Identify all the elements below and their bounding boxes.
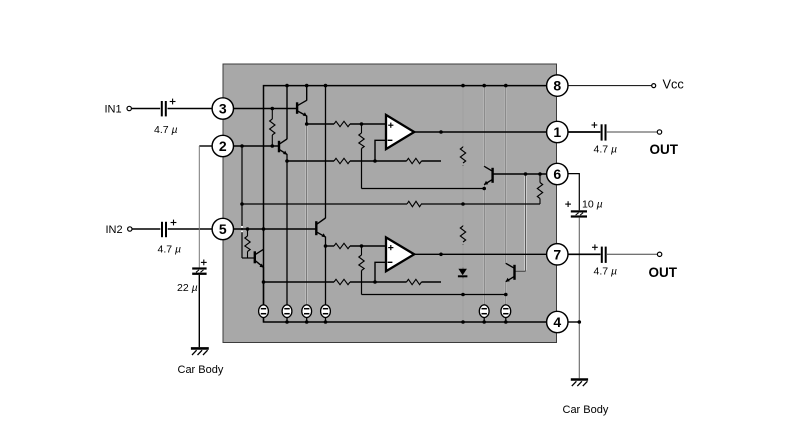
pin 7: [547, 244, 568, 265]
terminal OUT lower: [657, 252, 661, 256]
wire C6 down to pin4 node and ground: [578, 218, 580, 379]
svg-text:IN2: IN2: [106, 224, 123, 236]
svg-text:7: 7: [553, 246, 561, 262]
wire T1 emitter rail x306 thin core: [306, 124, 308, 305]
wire node2 vertical x242: [241, 146, 243, 258]
resistor R5v bias upper: [460, 147, 465, 163]
svg-text:OUT: OUT: [650, 142, 679, 157]
wire T2 collector up: [286, 86, 288, 140]
polarity ticks C6: [576, 213, 579, 215]
op-amp U2a: [386, 115, 414, 149]
resistor R2v at x361: [361, 124, 363, 133]
ground G2 (car body): [571, 378, 588, 381]
pin 2: [212, 135, 233, 156]
svg-text:1: 1: [553, 124, 561, 140]
svg-text:8: 8: [553, 78, 561, 94]
resistor R6h on y204: [407, 201, 421, 206]
pin 3: [212, 98, 233, 119]
svg-text:Car Body: Car Body: [178, 364, 224, 376]
wire ground bottom rail y322: [264, 317, 547, 322]
svg-text:6: 6: [553, 166, 561, 182]
resistor R10h on y282: [334, 279, 350, 284]
wire C3 to OUT terminal: [607, 131, 657, 133]
wire y161 feedback line: [287, 160, 334, 162]
RIGHTEXT: [212, 75, 568, 333]
svg-text:5: 5: [219, 221, 227, 237]
plus mark C4: [592, 246, 598, 248]
wire Vcc top rail y85: [264, 86, 547, 306]
svg-text:4: 4: [553, 314, 561, 330]
svg-text:2: 2: [219, 138, 227, 154]
transistor T4: [255, 249, 264, 267]
plus mark C6: [565, 203, 571, 205]
current source I3: [302, 305, 312, 318]
current source I6: [501, 305, 511, 318]
wire T4 emitter x263 down: [263, 267, 265, 305]
wire Q7 base stub: [515, 270, 526, 272]
junction dot output2 x441: [439, 253, 443, 257]
wire pin 1 to C3: [568, 131, 600, 133]
wire y204 bias line: [242, 203, 407, 205]
wire opamp1 output to pin 1: [414, 131, 547, 133]
wire pin6 line: [493, 173, 547, 175]
junction dot T2 emitter y161: [285, 159, 289, 163]
wire y246 emitter line T3 to opamp2 plus: [326, 245, 335, 247]
svg-text:4.7 µ: 4.7 µ: [154, 124, 178, 136]
svg-text:4.7 µ: 4.7 µ: [594, 143, 618, 155]
transistor T2: [279, 139, 287, 155]
wire Q5 collector/emitter thin cores: [483, 86, 485, 167]
transistor Q5: [484, 166, 493, 185]
thin cased bias verticals: [307, 87, 526, 321]
wire opamp2 minus input: [375, 262, 386, 282]
pin 1: [547, 121, 568, 142]
transistor Q7: [506, 263, 515, 282]
wire y188 line to Q5 emitter: [362, 188, 485, 190]
diode D1: [458, 269, 467, 276]
junction dot pin4 ground node: [578, 320, 582, 324]
pin 5: [212, 218, 233, 239]
junction dot y124 x361: [360, 122, 364, 126]
wire pin 4 to ground node: [568, 321, 579, 323]
svg-text:3: 3: [219, 101, 227, 117]
junction dots y282: [262, 280, 266, 284]
polarity ticks C5: [196, 270, 199, 272]
resistor R7v below pin6: [539, 199, 541, 205]
wire opamp2 output to pin 7: [414, 253, 547, 255]
resistor R1 vertical between pin3 and pin2 lines: [271, 109, 273, 120]
capacitor C2 4.7u: [161, 222, 167, 237]
svg-text:4.7 µ: 4.7 µ: [158, 244, 182, 256]
wire T1 emitter down to y124: [306, 116, 308, 124]
resistor R9v at x361 lower: [361, 246, 363, 255]
svg-text:22 µ: 22 µ: [177, 282, 198, 294]
pin 4: [547, 311, 568, 332]
junction dots y246: [324, 244, 328, 248]
svg-text:Car Body: Car Body: [563, 404, 609, 416]
wire opamp1 minus input: [375, 140, 386, 161]
wire C1 to pin 3: [168, 108, 214, 110]
current source I5: [479, 305, 489, 318]
op-amp U2b: [386, 237, 414, 271]
wire T4 base: [242, 257, 254, 259]
junction dots y294: [461, 293, 465, 297]
terminal IN1: [127, 106, 131, 110]
svg-text:Vcc: Vcc: [663, 77, 685, 92]
pin 6: [547, 163, 568, 184]
wire T3 emitter down to current source I4: [325, 237, 327, 306]
wire pin 8 to Vcc terminal: [568, 85, 652, 87]
wire pin6 node down x525 thin core: [525, 174, 527, 271]
wire bias x463 thin cores: [462, 86, 464, 147]
plus mark C1: [170, 101, 176, 103]
wire x361 down to y294: [361, 271, 363, 295]
capacitor C6 10u electrolytic: [571, 210, 587, 217]
ground G1 (car body): [191, 347, 209, 350]
svg-text:10 µ: 10 µ: [582, 198, 603, 210]
wire pin2 node down to C5: [198, 146, 200, 267]
wire y282 feedback line lower: [264, 281, 335, 283]
wire IN2 to C2: [132, 228, 160, 230]
junction dot T1 emitter: [305, 122, 309, 126]
pin 8: [547, 75, 568, 96]
resistor R3h on y161: [334, 158, 350, 163]
capacitor C4 4.7u: [601, 247, 607, 263]
wire pin5 line into IC: [223, 228, 316, 230]
plus mark C3: [592, 124, 598, 126]
resistor R8h on y246: [334, 243, 350, 248]
wire T3 collector up to rail: [325, 86, 327, 219]
wire T2 emitter down to current source I2: [286, 154, 288, 305]
wire pin3 line into IC: [223, 108, 296, 110]
wire x361 down to y188: [361, 149, 363, 189]
capacitor C5 22u electrolytic: [192, 267, 206, 275]
resistor R11h feedback lower: [407, 279, 422, 284]
wire pin 2 left: [199, 145, 212, 147]
wire C2 to pin 5: [168, 228, 213, 230]
junction dot output1 x441: [439, 130, 443, 134]
terminal IN2: [128, 227, 132, 231]
wire pin 7 to C4: [568, 253, 601, 255]
current source I4: [321, 305, 331, 318]
junction dots node2: [240, 144, 244, 148]
wire C5 to ground: [198, 275, 200, 347]
capacitor C1 4.7u: [161, 101, 167, 116]
IC body (shaded block): [223, 64, 557, 343]
transistor T3: [316, 218, 325, 237]
plus mark C2: [171, 222, 177, 224]
junction dot bias x463 y204: [461, 202, 465, 206]
resistor R4 vertical between pin5 line and T4 base: [247, 229, 249, 236]
junction dots R1: [271, 107, 275, 111]
junction dot minus1 y161: [373, 159, 377, 163]
resistor R12v bias lower x463: [460, 226, 465, 242]
wire y294 line to Q7 emitter: [362, 294, 506, 296]
INTERIOR: [565, 84, 662, 387]
transistor T1: [297, 100, 307, 116]
svg-text:4.7 µ: 4.7 µ: [594, 265, 618, 277]
crossover break x242/pin5: [241, 226, 243, 228]
wire pin2 line into IC: [223, 145, 278, 147]
wire C4 to OUT terminal: [607, 253, 657, 255]
resistor R2h on y124: [334, 121, 350, 126]
capacitor C3 4.7u: [601, 124, 607, 140]
current source I2: [282, 305, 292, 318]
wire pin 6 to C6: [568, 174, 579, 211]
terminal Vcc: [652, 84, 656, 88]
wire y124 emitter line T1 to opamp plus: [307, 123, 334, 125]
junction dots on top rail: [285, 84, 289, 88]
plus mark C5: [201, 261, 207, 263]
resistor R4h feedback upper: [407, 158, 422, 163]
junction dots pin5 line: [246, 227, 250, 231]
junction dot Q5 emitter y188: [482, 187, 486, 191]
wire T1 collector up: [306, 86, 308, 101]
terminal OUT upper: [657, 130, 661, 134]
junction dots bottom rail: [285, 320, 289, 324]
wire IN1 to C1: [132, 108, 161, 110]
svg-text:OUT: OUT: [649, 265, 678, 280]
wire current source stubs to bottom rail: [263, 317, 265, 322]
svg-text:IN1: IN1: [105, 103, 122, 115]
wire Q7 collector/emitter thin cores: [505, 86, 507, 264]
junction dots pin6 line: [524, 172, 528, 176]
current source I1: [259, 305, 269, 318]
